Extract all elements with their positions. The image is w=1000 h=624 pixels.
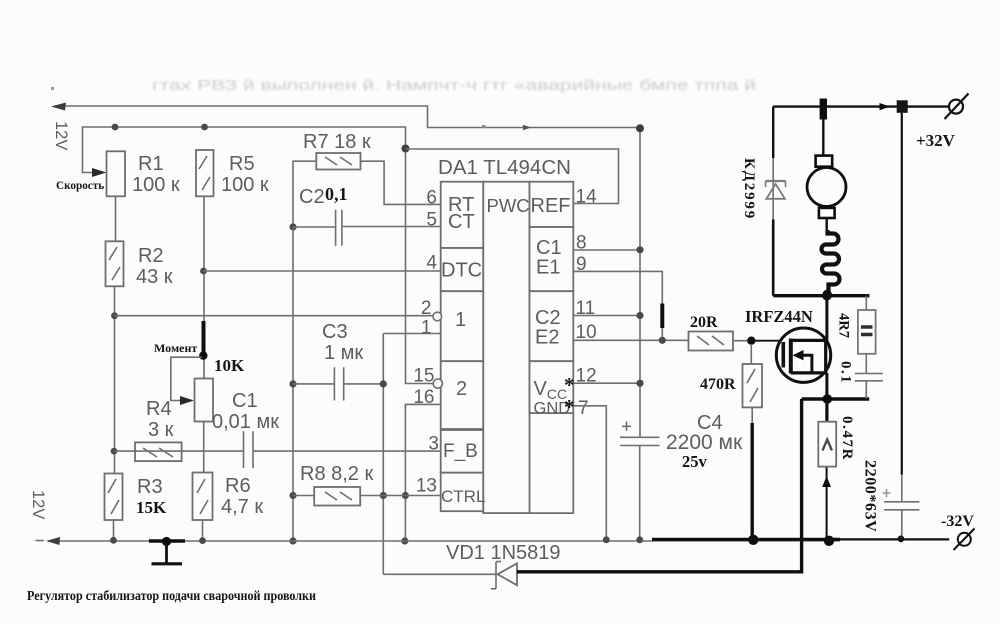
- svg-text:R1: R1: [138, 153, 164, 175]
- wire C3 line: [293, 383, 383, 385]
- motor brush top: [816, 156, 833, 167]
- capacitor C3: [334, 367, 343, 400]
- wire pin 7 GND down: [574, 406, 606, 540]
- thick return wire to VD1: [517, 399, 802, 572]
- wire R2 to R3 chain: [114, 286, 116, 473]
- node C3 left: [289, 380, 296, 387]
- svg-text:1: 1: [455, 309, 466, 331]
- node R1 top: [112, 124, 119, 131]
- arrow ground rail left: [46, 537, 60, 545]
- source arrow path: [800, 355, 812, 373]
- svg-text:C3: C3: [322, 321, 348, 343]
- motor body: [807, 168, 846, 207]
- terminal +32V: [945, 94, 969, 120]
- node pin 8: [636, 246, 643, 253]
- capacitor 0.1: [855, 354, 883, 399]
- arrow on 0.47R wire: [822, 476, 831, 487]
- svg-text:DTC: DTC: [441, 260, 482, 282]
- motor M top lead: [822, 119, 824, 156]
- motor bottom lead: [826, 218, 828, 230]
- terminal -32V: [954, 529, 975, 551]
- svg-text:3: 3: [428, 434, 439, 455]
- potentiometer R1: [107, 151, 126, 196]
- connector bar motor +: [820, 99, 827, 120]
- svg-text:1: 1: [421, 318, 432, 339]
- svg-text:Момент: Момент: [154, 341, 197, 355]
- svg-text:IRFZ44N: IRFZ44N: [745, 307, 813, 326]
- svg-text:4,7 к: 4,7 к: [221, 496, 263, 518]
- resistor 4R7: [858, 296, 876, 354]
- resistor 470R: [743, 344, 763, 407]
- thick ground rail segment: [652, 538, 840, 542]
- top right +32V rail: [773, 105, 949, 107]
- motor brush bottom: [819, 208, 835, 218]
- capacitor C2: [336, 210, 342, 246]
- node gate: [747, 337, 755, 345]
- wire pin 12: [574, 382, 640, 384]
- motor branch left vertical: [772, 107, 774, 158]
- wire pot to R6: [203, 422, 205, 473]
- svg-text:R4: R4: [146, 398, 172, 420]
- svg-text:2: 2: [456, 378, 467, 400]
- blob 470R ground: [748, 535, 758, 545]
- resistor R4: [135, 442, 182, 461]
- black overdraw pin 9 wire: [660, 304, 664, 329]
- IC left column CTRL box: [441, 473, 484, 512]
- IC left column DTC box: [441, 248, 484, 291]
- svg-text:5: 5: [426, 210, 437, 231]
- svg-text:*: *: [564, 373, 575, 397]
- svg-text:КД2999: КД2999: [741, 158, 757, 220]
- svg-text:C1: C1: [232, 390, 258, 412]
- svg-text:25v: 25v: [682, 452, 708, 471]
- op-amp IC DA1 TL494CN body: [441, 182, 574, 513]
- svg-text:R8 8,2 к: R8 8,2 к: [300, 463, 373, 485]
- drain node line: [773, 294, 869, 297]
- wire pin 8: [574, 249, 640, 251]
- dash left of arrow: [36, 540, 45, 542]
- node pin 9/10: [659, 337, 666, 344]
- svg-text:VD1 1N5819: VD1 1N5819: [446, 542, 561, 564]
- IC right column C2/E2 box: [530, 291, 574, 361]
- resistor R7: [316, 153, 360, 170]
- wire pin 4 line: [204, 270, 442, 272]
- svg-text:7: 7: [578, 398, 589, 419]
- node pin14 branch: [402, 145, 410, 153]
- small arrow on 12V rail: [523, 125, 531, 130]
- svg-text:2: 2: [421, 298, 432, 319]
- svg-text:R6: R6: [225, 475, 251, 497]
- IC left column RT/CT box: [441, 182, 484, 248]
- svg-text:R7 18 к: R7 18 к: [303, 131, 371, 153]
- wire R7 left to C2 node: [293, 161, 316, 227]
- node pin 7 ground: [603, 536, 610, 543]
- node pin 11: [636, 312, 643, 319]
- inductor coil: [822, 230, 840, 291]
- svg-text:REF: REF: [531, 195, 571, 217]
- IC left column comparator 1 box: [441, 291, 484, 361]
- diode КД2999: [766, 181, 786, 199]
- IC right column C1/E1 box: [530, 227, 574, 291]
- wire 12V top rail: [55, 106, 640, 128]
- IC left column comparator 2 box: [441, 361, 484, 429]
- svg-text:12V: 12V: [52, 121, 70, 150]
- wiper bracket of pot 10K: [171, 357, 202, 400]
- svg-text:2200 мк: 2200 мк: [666, 431, 743, 454]
- svg-text:F_B: F_B: [443, 441, 478, 462]
- node R8 left: [289, 492, 296, 499]
- source node line: [802, 397, 870, 400]
- transistor Q1 IRFZ44N: [776, 296, 830, 399]
- svg-text:R2: R2: [138, 245, 164, 267]
- svg-text:0,1: 0,1: [325, 184, 348, 204]
- IC right column VCC/GND box: [530, 361, 574, 413]
- svg-text:13: 13: [416, 476, 437, 497]
- node pin 12: [636, 380, 643, 387]
- svg-text:470R: 470R: [700, 376, 736, 393]
- svg-text:1 мк: 1 мк: [324, 342, 363, 364]
- svg-text:16: 16: [413, 387, 434, 408]
- svg-text:100 к: 100 к: [132, 174, 180, 196]
- ground rail to -32V terminal: [840, 538, 949, 540]
- body plate: [791, 340, 826, 373]
- black overdraw on R5 chain: [202, 321, 206, 353]
- wire R6 to rail: [202, 520, 204, 541]
- blob source return ground rail: [824, 536, 834, 546]
- svg-text:12V: 12V: [29, 490, 47, 519]
- svg-text:10K: 10K: [214, 356, 245, 375]
- transistor circle: [776, 328, 830, 382]
- channel bar: [789, 339, 793, 374]
- svg-text:0.47R: 0.47R: [839, 416, 855, 461]
- resistor R6: [193, 473, 213, 521]
- speck top-left: [51, 87, 54, 90]
- wire 470R to ground (black overdraw): [751, 407, 753, 424]
- node 2200 cap ground: [898, 536, 905, 543]
- wire R5 down to pot 10K: [203, 196, 205, 378]
- capacitor C1: [244, 431, 254, 468]
- node rail bottom left: [289, 537, 296, 544]
- VCC vertical rail: [639, 128, 641, 437]
- wire to pin 14: [406, 149, 619, 204]
- svg-text:Регулятор стабилизатор подачи: Регулятор стабилизатор подачи сварочной …: [27, 589, 316, 604]
- svg-text:PWC: PWC: [487, 195, 530, 216]
- svg-text:E1: E1: [536, 257, 560, 279]
- arrow on +32V rail: [880, 103, 891, 110]
- node pin16/R8: [402, 492, 409, 499]
- inverting input circle pin 2: [433, 312, 442, 321]
- node R8 right: [380, 492, 387, 499]
- wire R1 to R2: [115, 196, 117, 241]
- node C2 left: [289, 223, 296, 230]
- arrow 12V input left: [51, 103, 66, 111]
- drain lead: [825, 296, 828, 341]
- node R3 bottom: [110, 537, 117, 544]
- resistor 20R: [689, 332, 734, 351]
- resistor R3: [105, 474, 123, 521]
- svg-text:CT: CT: [448, 211, 475, 233]
- ground rail: [49, 540, 654, 542]
- wire pin 2 line: [115, 315, 434, 317]
- node pin4 branch: [200, 268, 207, 275]
- source lead: [825, 373, 828, 399]
- resistor R5: [196, 150, 214, 196]
- svg-text:R3: R3: [137, 476, 163, 498]
- plus sign C4: [622, 422, 631, 432]
- gate bar: [781, 342, 785, 368]
- node R6 bottom: [199, 537, 206, 544]
- inverting input circle pin 15: [433, 379, 442, 388]
- svg-text:43 к: 43 к: [136, 266, 173, 288]
- wire R7 right to pin 6: [361, 161, 442, 204]
- ground symbol (hand drawn): [149, 541, 185, 564]
- node C4 ground: [636, 536, 643, 543]
- wire pin 10 to gate resistor: [574, 339, 689, 341]
- wire R4 / C1 line to pin 3: [115, 450, 442, 452]
- wire REF rail to pots: [83, 127, 434, 384]
- svg-text:2200*63V: 2200*63V: [862, 460, 879, 532]
- capacitor 2200*63V: [883, 489, 920, 539]
- wire pin 11: [574, 315, 640, 317]
- svg-text:CTRL: CTRL: [441, 487, 485, 506]
- svg-text:4R7: 4R7: [836, 313, 852, 338]
- node R4 branch: [111, 448, 118, 455]
- node C3 right: [380, 380, 387, 387]
- mid vertical rail (pin1/C3/R8/VD1): [382, 334, 384, 575]
- arrow wiper R1 (Скорость): [92, 168, 107, 177]
- wire R8 line to pin 13: [293, 495, 441, 497]
- svg-text:14: 14: [576, 187, 598, 208]
- svg-text:C2: C2: [299, 186, 325, 208]
- wire pin 1: [383, 333, 441, 335]
- svg-text:R5: R5: [229, 153, 255, 175]
- junction square +32V rail: [897, 100, 908, 113]
- faint ghost print-through text row: [152, 77, 756, 94]
- resistor R2: [106, 241, 124, 286]
- svg-text:6: 6: [426, 188, 437, 209]
- node source: [823, 394, 833, 404]
- svg-text:Скорость: Скорость: [56, 180, 104, 192]
- node coil to drain line: [823, 290, 832, 299]
- node R5 top: [201, 124, 208, 131]
- wire C4 bottom: [639, 446, 641, 541]
- potentiometer 10K (Момент): [195, 379, 214, 422]
- IC left column F_B box: [441, 430, 484, 473]
- svg-text:20R: 20R: [690, 314, 718, 331]
- IC lower right outline: [530, 413, 574, 513]
- node pin16/ground: [401, 537, 408, 544]
- svg-text:гтах РВЗ й выполнен й. На: гтах РВЗ й выполнен й. Нампчт-ч гтг «ава…: [152, 77, 756, 94]
- svg-text:0.1: 0.1: [838, 361, 854, 384]
- node pin2 branch: [111, 312, 118, 319]
- wire C2 line / pin 5: [293, 226, 441, 229]
- wire R3 to rail: [113, 520, 115, 541]
- wire pin 9: [574, 271, 662, 340]
- node drain/motor: [822, 291, 832, 301]
- svg-text:0,01 мк: 0,01 мк: [212, 411, 279, 433]
- svg-text:3 к: 3 к: [148, 419, 174, 441]
- wire 2200 cap branch: [901, 113, 903, 475]
- svg-text:-32V: -32V: [941, 513, 974, 530]
- left vertical rail: [292, 227, 294, 541]
- IC right column REF box: [530, 182, 574, 227]
- wire pin 16 down to ground: [405, 404, 441, 541]
- node pot top (black): [199, 351, 207, 359]
- node VCC rail top: [636, 124, 644, 132]
- wire gate lead: [750, 340, 782, 342]
- resistor 0.47R: [818, 399, 836, 467]
- wire 20R to gate: [733, 340, 750, 342]
- IC middle column PWC box: [483, 182, 529, 513]
- svg-text:100 к: 100 к: [221, 174, 269, 196]
- svg-text:15: 15: [413, 366, 434, 387]
- diode VD1 1N5819: [383, 562, 517, 589]
- svg-text:15K: 15K: [136, 498, 167, 517]
- wire 0.47R lower: [826, 467, 828, 540]
- svg-text:E2: E2: [535, 327, 559, 349]
- capacitor C4: [620, 437, 660, 445]
- resistor R8: [314, 487, 360, 506]
- svg-text:+32V: +32V: [916, 131, 956, 150]
- svg-text:*: *: [564, 395, 575, 419]
- svg-text:DA1 TL494CN: DA1 TL494CN: [438, 156, 571, 179]
- svg-text:4: 4: [426, 253, 437, 274]
